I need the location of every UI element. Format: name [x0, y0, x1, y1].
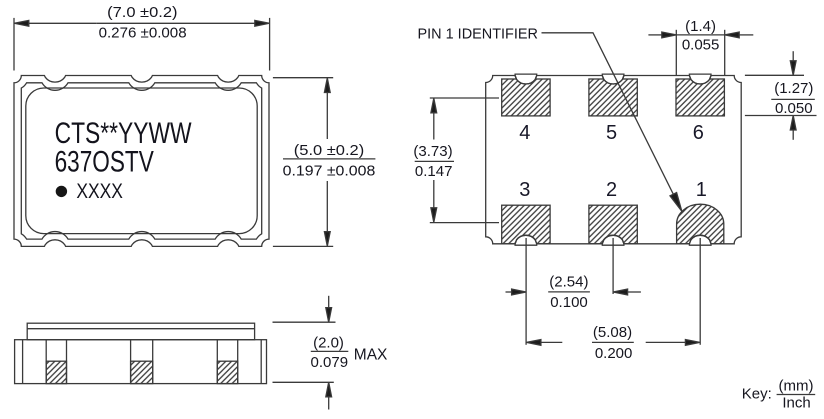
dimension 3.73: bottom extension line — [430, 222, 499, 224]
side view: ceramic body rectangle — [15, 340, 267, 384]
svg-text:4: 4 — [519, 122, 530, 144]
svg-text:(mm): (mm) — [779, 377, 814, 394]
svg-text:XXXX: XXXX — [76, 180, 123, 203]
side view: castellation groove 1 walls — [45, 340, 47, 384]
castellation notch above pad 5 — [602, 74, 624, 84]
pad 2 (hatched) — [589, 205, 637, 244]
svg-text:6: 6 — [693, 122, 704, 144]
dimension 3.73: top arrow — [431, 98, 437, 113]
svg-text:0.147: 0.147 — [415, 163, 453, 180]
top view: pin 1 marking dot — [56, 186, 67, 197]
dimension 2.54: right inward arrow — [613, 289, 628, 295]
top view: metal lid outline — [26, 88, 257, 234]
svg-text:0.055: 0.055 — [682, 37, 720, 54]
svg-text:(7.0 ±0.2): (7.0 ±0.2) — [107, 4, 177, 21]
svg-text:PIN 1 IDENTIFIER: PIN 1 IDENTIFIER — [418, 26, 539, 43]
dimension 1.27: bottom inward arrow — [790, 116, 796, 131]
castellation notch above pad 4 — [515, 74, 537, 84]
dimension 5.0: top extension line — [273, 77, 333, 79]
svg-text:0.050: 0.050 — [775, 100, 813, 117]
dimension 1.27: bottom extension line — [745, 115, 817, 117]
dimension 3.73: fraction bar — [415, 160, 454, 162]
dimension 5.0: fraction bar — [283, 158, 375, 160]
dimension 2.0: bottom arrow — [326, 382, 332, 397]
dimension 3.73: bottom arrow — [431, 208, 437, 223]
castellation notch below pad 1 — [689, 235, 711, 245]
pad 5 (hatched) — [589, 79, 637, 116]
dimension 1.4: left extension line — [675, 30, 677, 76]
side view: metal lid rectangle — [27, 323, 254, 340]
svg-text:Key:: Key: — [742, 385, 772, 402]
side view: right end-wall line — [260, 340, 262, 384]
svg-text:0.276 ±0.008: 0.276 ±0.008 — [99, 24, 187, 41]
dimension 1.27: fraction bar — [771, 98, 815, 100]
svg-text:Inch: Inch — [782, 395, 810, 412]
dimension 3.73: top extension line — [430, 97, 499, 99]
svg-text:(1.4): (1.4) — [685, 18, 716, 35]
svg-text:(5.08): (5.08) — [593, 324, 632, 341]
top view: ceramic inner edge line — [21, 83, 261, 239]
pad 6 (hatched) — [676, 79, 724, 116]
svg-text:0.200: 0.200 — [595, 345, 633, 362]
side view: solder pad 3 (hatched) — [217, 361, 237, 383]
side view: castellation groove 2 walls — [130, 340, 132, 384]
bottom view: package body outline (bottom view) — [486, 76, 742, 244]
pad 4 (hatched) — [502, 79, 550, 116]
dimension 5.08: fraction bar — [592, 341, 634, 343]
svg-text:(3.73): (3.73) — [413, 143, 452, 160]
svg-text:0.079: 0.079 — [311, 354, 349, 371]
svg-text:(1.27): (1.27) — [774, 80, 813, 97]
dimension 1.4: right inward arrow — [725, 32, 740, 38]
key fraction bar — [777, 394, 816, 396]
dimension 7.0: right extension line — [269, 18, 271, 71]
dimension 5.08: right outward arrow — [685, 340, 700, 346]
pad 1 (hatched, D-shaped pin-1 pad) — [677, 204, 724, 244]
svg-text:(2.0): (2.0) — [313, 334, 344, 351]
dimension 2.54: pad 2 extension line — [612, 238, 614, 294]
dimension 2.0: bottom extension line — [273, 381, 334, 383]
side view: castellation groove 3 walls — [216, 340, 218, 384]
dimension 1.4: fraction bar — [676, 34, 724, 36]
dimension 2.54: left inward arrow — [512, 289, 526, 295]
dimension 7.0: dimension line with outward arrowheads — [14, 20, 28, 26]
svg-text:637OSTV: 637OSTV — [55, 146, 154, 179]
pad 3 (hatched) — [502, 205, 550, 244]
dimension 5.0: dimension line with outward arrowheads — [324, 78, 330, 93]
svg-text:0.197 ±0.008: 0.197 ±0.008 — [283, 163, 376, 180]
svg-text:MAX: MAX — [354, 346, 388, 363]
side view: solder pad 1 (hatched) — [46, 361, 66, 383]
dimension 7.0: left extension line — [13, 18, 15, 71]
svg-text:2: 2 — [606, 179, 617, 201]
side view: lid seam line — [27, 328, 254, 330]
svg-text:0.100: 0.100 — [550, 294, 588, 311]
dimension 2.0: top arrow — [326, 308, 332, 323]
svg-text:5: 5 — [606, 122, 617, 144]
dimension 1.4: left inward arrow — [662, 32, 677, 38]
pin 1 leader arrowhead — [670, 193, 682, 212]
castellation notch below pad 3 — [515, 235, 537, 245]
castellation notch below pad 2 — [602, 235, 624, 245]
svg-text:3: 3 — [519, 179, 530, 201]
dimension 1.4: right extension line — [724, 30, 726, 76]
pin 1 leader line — [542, 33, 674, 194]
dimension 5.08: left outward arrow — [526, 340, 541, 346]
dimension 2.54: fraction bar — [548, 291, 590, 293]
svg-text:(5.0 ±0.2): (5.0 ±0.2) — [294, 142, 364, 159]
castellation notch above pad 6 — [689, 74, 711, 84]
side view: solder pad 2 (hatched) — [131, 361, 153, 383]
dimension 1.27: top inward arrow — [790, 61, 796, 76]
dimension 5.0: bottom extension line — [273, 245, 333, 247]
side view: left end-wall line — [22, 340, 24, 384]
svg-text:1: 1 — [696, 179, 707, 201]
dimension 5.08: pad 1 extension line — [699, 238, 701, 345]
top view: package body outline (top view) — [14, 76, 269, 247]
dimension 2.0: top extension line — [273, 321, 336, 323]
dimension 1.27: top extension line — [745, 74, 804, 76]
dimension 2.0: fraction bar — [311, 350, 349, 352]
svg-text:(2.54): (2.54) — [549, 273, 588, 290]
dimension 2.54: pad 3 extension line — [525, 238, 527, 345]
